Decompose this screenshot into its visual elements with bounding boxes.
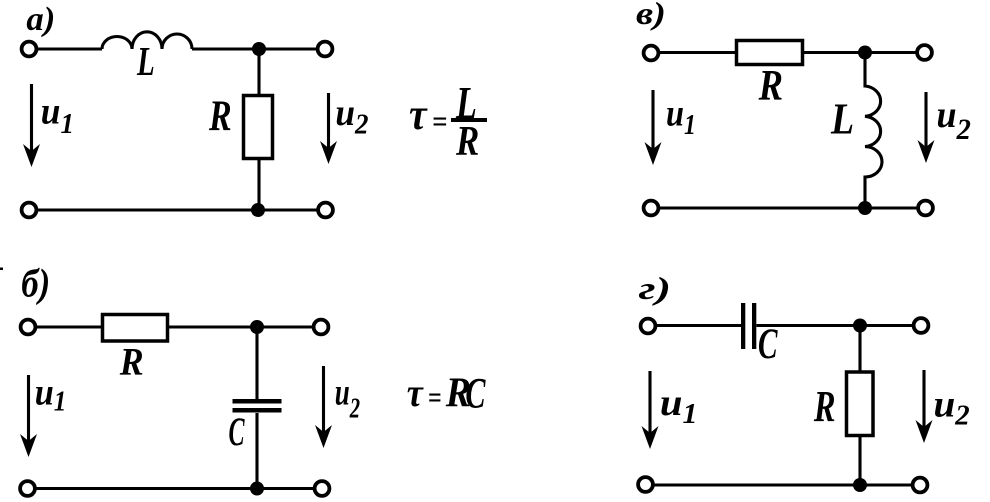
svg-text:τ: τ xyxy=(409,91,428,139)
svg-text:L: L xyxy=(136,38,155,84)
svg-text:б): б) xyxy=(21,262,50,306)
svg-text:R: R xyxy=(119,341,144,384)
svg-text:τ: τ xyxy=(407,371,424,415)
svg-text:R: R xyxy=(813,382,836,431)
svg-text:=: = xyxy=(428,381,442,414)
svg-text:=: = xyxy=(432,106,447,139)
svg-text:R: R xyxy=(208,92,232,140)
svg-text:C: C xyxy=(465,370,486,418)
svg-text:u1: u1 xyxy=(35,371,67,417)
svg-text:C: C xyxy=(229,411,246,455)
svg-text:u2: u2 xyxy=(335,372,360,424)
svg-text:L: L xyxy=(830,94,854,144)
svg-text:a): a) xyxy=(26,0,55,38)
svg-text:R: R xyxy=(758,61,783,109)
svg-text:в): в) xyxy=(636,0,666,31)
svg-text:u1: u1 xyxy=(666,92,696,140)
svg-text:u2: u2 xyxy=(335,91,368,141)
svg-text:u1: u1 xyxy=(41,89,74,140)
svg-text:R: R xyxy=(455,119,479,165)
svg-text:г): г) xyxy=(639,270,672,306)
svg-text:u2: u2 xyxy=(937,94,971,146)
svg-text:u1: u1 xyxy=(660,381,698,430)
svg-text:u2: u2 xyxy=(934,384,970,431)
svg-text:C: C xyxy=(758,319,778,367)
